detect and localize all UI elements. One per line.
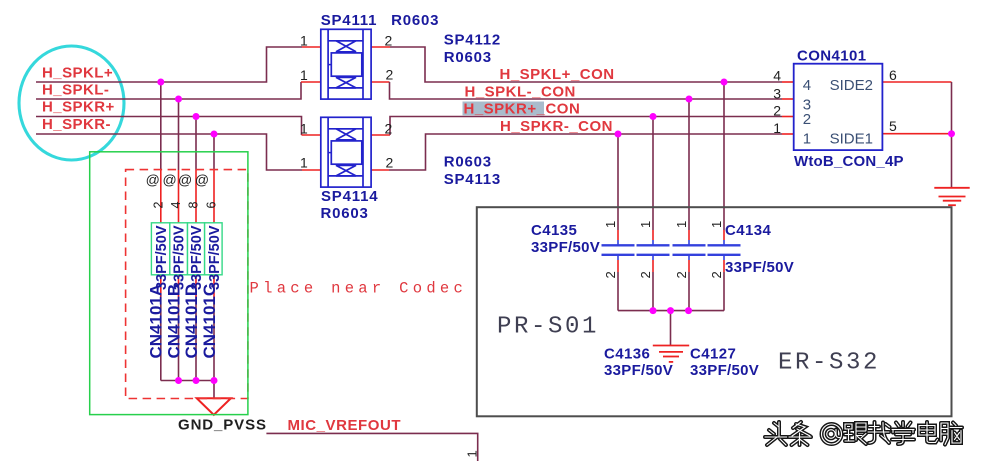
- svg-text:4: 4: [169, 202, 183, 209]
- svg-text:H_SPKR+: H_SPKR+: [42, 99, 115, 116]
- svg-text:4: 4: [803, 77, 811, 94]
- svg-text:@: @: [146, 172, 160, 188]
- svg-text:SIDE2: SIDE2: [830, 77, 873, 94]
- svg-text:CN4101A: CN4101A: [147, 284, 166, 359]
- svg-text:SP4114: SP4114: [321, 188, 378, 205]
- svg-text:1: 1: [300, 120, 308, 136]
- svg-text:8: 8: [187, 202, 201, 209]
- svg-text:R0603: R0603: [391, 12, 439, 29]
- svg-text:2: 2: [603, 271, 618, 278]
- svg-text:1: 1: [465, 450, 480, 457]
- svg-text:CN4101D: CN4101D: [182, 284, 201, 359]
- svg-text:@: @: [178, 172, 192, 188]
- svg-text:33PF/50V: 33PF/50V: [604, 362, 673, 379]
- svg-text:6: 6: [889, 67, 897, 83]
- svg-text:GND_PVSS: GND_PVSS: [178, 417, 267, 434]
- svg-text:C4135: C4135: [531, 222, 577, 239]
- svg-text:3: 3: [773, 86, 781, 102]
- svg-text:2: 2: [385, 33, 393, 49]
- svg-text:PR-S01: PR-S01: [497, 314, 599, 341]
- svg-text:2: 2: [386, 67, 394, 83]
- svg-text:1: 1: [300, 33, 308, 49]
- svg-text:SP4113: SP4113: [444, 171, 501, 188]
- svg-text:33PF/50V: 33PF/50V: [690, 362, 759, 379]
- svg-text:MIC_VREFOUT: MIC_VREFOUT: [288, 417, 402, 434]
- svg-text:1: 1: [674, 221, 689, 228]
- svg-text:H_SPKR+_CON: H_SPKR+_CON: [464, 101, 581, 118]
- svg-text:33PF/50V: 33PF/50V: [531, 239, 600, 256]
- svg-text:CN4101B: CN4101B: [164, 284, 183, 359]
- svg-text:Place near Codec: Place near Codec: [250, 280, 468, 298]
- svg-text:WtoB_CON_4P: WtoB_CON_4P: [794, 153, 904, 170]
- svg-text:4: 4: [773, 68, 781, 84]
- svg-text:33PF/50V: 33PF/50V: [172, 225, 188, 290]
- svg-text:R0603: R0603: [444, 154, 492, 171]
- svg-text:1: 1: [773, 120, 781, 136]
- svg-text:6: 6: [205, 202, 219, 209]
- svg-text:C4127: C4127: [690, 346, 736, 363]
- svg-text:2: 2: [773, 103, 781, 119]
- svg-text:33PF/50V: 33PF/50V: [207, 225, 223, 290]
- svg-text:CN4101C: CN4101C: [200, 284, 219, 359]
- svg-text:CON4101: CON4101: [797, 48, 867, 65]
- svg-text:H_SPKL-_CON: H_SPKL-_CON: [465, 84, 576, 101]
- svg-text:H_SPKL-: H_SPKL-: [42, 82, 109, 99]
- svg-text:2: 2: [151, 202, 165, 209]
- svg-text:ER-S32: ER-S32: [778, 350, 880, 377]
- svg-text:1: 1: [300, 155, 308, 171]
- svg-text:C4136: C4136: [604, 346, 650, 363]
- svg-text:1: 1: [300, 67, 308, 83]
- svg-text:SP4111: SP4111: [321, 12, 378, 29]
- svg-text:H_SPKL+_CON: H_SPKL+_CON: [500, 66, 615, 83]
- svg-text:1: 1: [603, 221, 618, 228]
- svg-text:H_SPKR-: H_SPKR-: [42, 116, 111, 133]
- svg-text:H_SPKR-_CON: H_SPKR-_CON: [500, 118, 613, 135]
- svg-text:1: 1: [803, 131, 811, 148]
- svg-text:2: 2: [674, 271, 689, 278]
- svg-text:2: 2: [803, 111, 811, 128]
- svg-text:@: @: [195, 172, 209, 188]
- svg-text:2: 2: [709, 271, 724, 278]
- svg-text:5: 5: [889, 118, 897, 134]
- svg-text:33PF/50V: 33PF/50V: [154, 225, 170, 290]
- svg-text:33PF/50V: 33PF/50V: [725, 259, 794, 276]
- svg-text:33PF/50V: 33PF/50V: [189, 225, 205, 290]
- svg-text:SIDE1: SIDE1: [830, 131, 873, 148]
- svg-text:2: 2: [638, 271, 653, 278]
- svg-text:1: 1: [638, 221, 653, 228]
- svg-text:R0603: R0603: [321, 205, 369, 222]
- svg-text:@: @: [162, 172, 176, 188]
- svg-text:2: 2: [385, 120, 393, 136]
- svg-text:H_SPKL+: H_SPKL+: [42, 65, 113, 82]
- svg-text:C4134: C4134: [725, 222, 771, 239]
- svg-text:SP4112: SP4112: [444, 32, 501, 49]
- svg-text:1: 1: [709, 221, 724, 228]
- svg-text:R0603: R0603: [444, 49, 492, 66]
- svg-text:2: 2: [386, 154, 394, 170]
